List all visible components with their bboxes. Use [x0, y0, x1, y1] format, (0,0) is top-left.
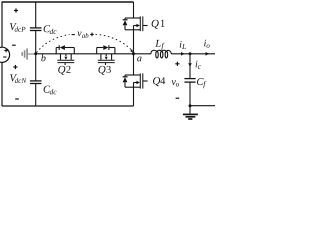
inductor Lf coil — [151, 50, 172, 54]
label - (vo bottom) — [176, 97, 180, 99]
node b label — [41, 54, 45, 61]
transistor Q1 — [123, 16, 148, 31]
label vab — [77, 32, 88, 38]
wire top bus — [2, 1, 134, 3]
iL current arrowhead — [181, 52, 185, 56]
label Cf — [197, 78, 206, 88]
label Q3 — [98, 66, 110, 75]
label - (VdcN bottom) — [15, 98, 19, 100]
node M junction dot — [34, 52, 37, 55]
io current arrowhead — [206, 52, 210, 56]
label io — [204, 40, 210, 48]
vab dashed arc — [37, 34, 133, 52]
wire node a to inductor — [134, 53, 152, 55]
transistor Q3 (with body diode, pointing right) — [97, 45, 115, 65]
ground symbol — [183, 106, 198, 119]
vab arc arrowhead — [130, 49, 133, 53]
wire bottom bus — [2, 105, 134, 107]
label Cdc top — [44, 25, 57, 34]
chassis ground (gray, sideways) at dc midpoint — [22, 48, 34, 59]
wire node a to Q4 — [133, 54, 135, 75]
label + (vab plus) — [90, 33, 94, 37]
wire inductor to junction — [171, 53, 190, 55]
node a junction dot — [132, 52, 135, 55]
label + (vo top) — [175, 62, 179, 66]
label Lf — [155, 40, 164, 50]
label vo — [172, 80, 179, 86]
dc source Vdc — [0, 47, 10, 62]
label - (vab minus) — [72, 34, 75, 36]
label + (VdcP top) — [14, 8, 18, 12]
label Q1 — [152, 20, 165, 29]
ground junction dot — [189, 104, 192, 107]
transistor Q2 (with body diode, pointing left) — [56, 45, 74, 65]
wire left bus lower — [1, 63, 3, 107]
wire mid rail — [36, 53, 134, 55]
label + (VdcN top) — [13, 65, 17, 69]
node a label — [137, 57, 141, 62]
capacitor Cf — [184, 79, 195, 106]
label Cdc bottom — [44, 86, 57, 95]
transistor Q4 — [123, 73, 148, 88]
wire junction down to Cf — [189, 54, 191, 78]
label - (VdcP bottom) — [12, 44, 16, 46]
capacitor Cdc bottom — [30, 54, 42, 106]
label VdcN — [10, 74, 27, 83]
wire junction to right edge — [190, 53, 215, 55]
wire return to right edge — [190, 105, 215, 107]
label Q4 — [153, 77, 165, 86]
label Q2 — [58, 66, 70, 75]
ic current arrowhead — [188, 63, 192, 67]
wire Q1 source to node a — [133, 30, 135, 54]
wire left bus upper — [1, 2, 3, 48]
capacitor Cdc top — [30, 2, 42, 54]
wire Q4 source to bottom bus — [133, 87, 135, 106]
wire right bus upper (top bus to Q1) — [133, 2, 135, 18]
output node junction dot — [189, 52, 192, 55]
label ic — [196, 61, 201, 69]
label VdcP — [10, 23, 26, 32]
label iL — [180, 41, 186, 49]
